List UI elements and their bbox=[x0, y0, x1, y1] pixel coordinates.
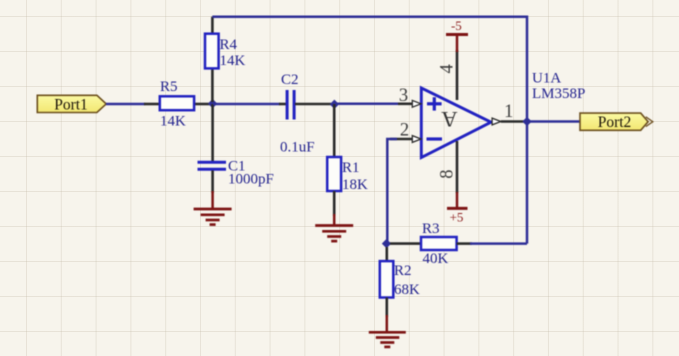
wire feedback loop (top and right) bbox=[212, 17, 527, 244]
resistor R5 bbox=[144, 96, 210, 110]
junction node output (pin1/feedback/Port2) bbox=[522, 117, 531, 126]
ground GND under C1 bbox=[194, 191, 232, 225]
svg-text:U1A: U1A bbox=[532, 71, 561, 87]
op-amp U1A bbox=[421, 88, 491, 158]
svg-text:R2: R2 bbox=[394, 263, 412, 279]
resistor R2 bbox=[380, 247, 394, 317]
svg-text:R1: R1 bbox=[342, 160, 360, 176]
svg-text:C2: C2 bbox=[281, 72, 299, 88]
svg-text:-5: -5 bbox=[451, 18, 462, 33]
svg-text:Port2: Port2 bbox=[598, 114, 632, 131]
svg-text:R3: R3 bbox=[422, 221, 440, 237]
svg-text:1: 1 bbox=[504, 102, 513, 122]
svg-text:14K: 14K bbox=[160, 114, 186, 130]
svg-text:40K: 40K bbox=[423, 251, 449, 267]
wire node B to op-amp pin 3 bbox=[334, 103, 400, 106]
resistor R4 bbox=[205, 17, 219, 102]
ground GND under R2 bbox=[369, 315, 406, 347]
resistor R3 bbox=[421, 237, 472, 250]
power -5 bbox=[446, 18, 468, 52]
svg-text:14K: 14K bbox=[220, 53, 246, 69]
junction node A (R5/R4/C1/C2) bbox=[208, 99, 217, 108]
svg-text:4: 4 bbox=[438, 64, 458, 73]
svg-text:R5: R5 bbox=[160, 79, 178, 95]
pin 2 of U1A bbox=[390, 136, 421, 143]
port Port1 bbox=[37, 95, 106, 113]
svg-text:1000pF: 1000pF bbox=[228, 172, 274, 188]
pin 4 of U1A bbox=[456, 50, 459, 100]
capacitor C1 bbox=[198, 162, 227, 193]
svg-text:A: A bbox=[441, 107, 458, 132]
wire junction to C2 bbox=[213, 103, 280, 106]
wire R3 to feedback bbox=[470, 242, 527, 245]
junction node B (C2/R1/pin3) bbox=[330, 100, 339, 109]
wire pin 2 to node C bbox=[387, 139, 397, 244]
svg-text:18K: 18K bbox=[342, 177, 368, 193]
junction node C (R3/R2/pin2) bbox=[382, 239, 391, 248]
pin 3 of U1A bbox=[398, 100, 421, 107]
power +5 bbox=[447, 192, 468, 225]
wire output node to Port2 bbox=[527, 120, 581, 123]
svg-text:Port1: Port1 bbox=[54, 97, 88, 114]
pin 8 of U1A bbox=[456, 141, 459, 193]
svg-text:2: 2 bbox=[400, 120, 409, 140]
port Port2 bbox=[580, 113, 653, 131]
svg-text:R4: R4 bbox=[220, 37, 238, 53]
svg-text:LM358P: LM358P bbox=[532, 86, 585, 102]
pin 1 output of U1A bbox=[492, 118, 526, 125]
wire node B to R1 bbox=[333, 104, 336, 158]
svg-text:0.1uF: 0.1uF bbox=[280, 140, 315, 156]
svg-text:68K: 68K bbox=[394, 282, 420, 298]
wire Port1 to R5 bbox=[106, 103, 145, 106]
svg-text:8: 8 bbox=[437, 169, 457, 178]
wire junction to C1 bbox=[211, 104, 214, 162]
capacitor C2 bbox=[279, 90, 331, 120]
svg-text:3: 3 bbox=[399, 86, 408, 106]
resistor R1 bbox=[327, 157, 341, 216]
svg-text:+5: +5 bbox=[450, 210, 464, 225]
wire node C to R3 bbox=[390, 242, 421, 245]
ground GND under R1 bbox=[315, 214, 353, 241]
